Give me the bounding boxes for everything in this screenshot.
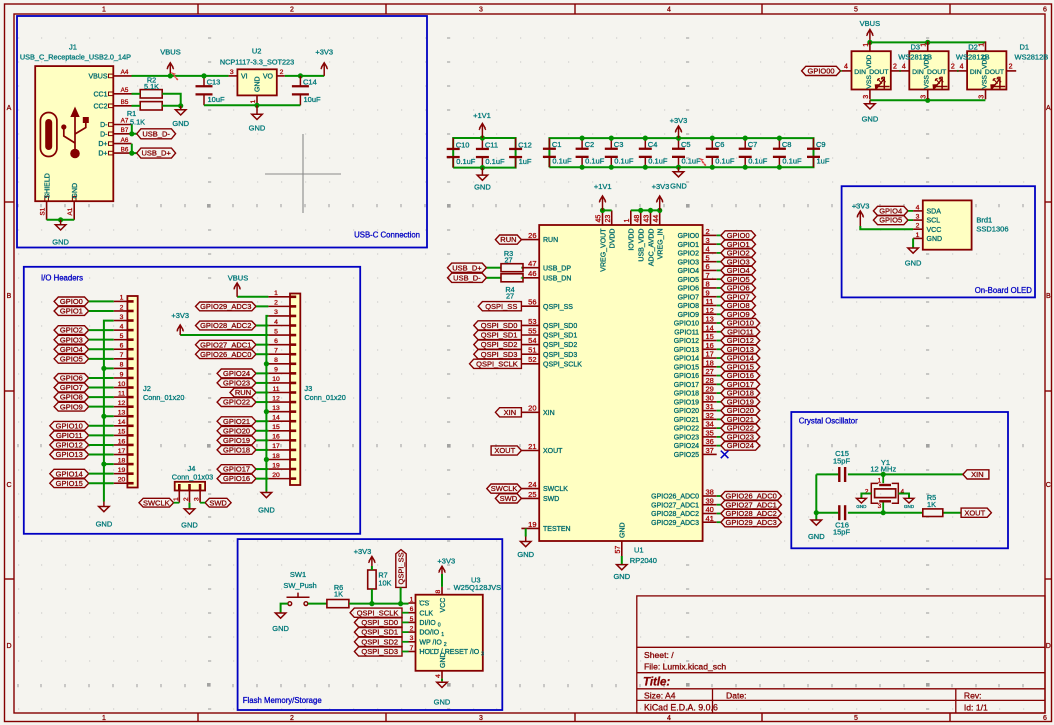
global label GPIO8 J2 (54, 393, 89, 402)
grid origin cross (265, 134, 341, 213)
svg-text:GPIO28_ADC2: GPIO28_ADC2 (726, 509, 777, 518)
svg-text:GPIO27_ADC1: GPIO27_ADC1 (651, 502, 699, 509)
svg-text:GND: GND (434, 697, 451, 706)
pin 23 DVDD U1 (611, 210, 613, 225)
global label GPIO29_ADC3 J3 (196, 302, 257, 311)
global label GPIO26_ADC0 (717, 495, 721, 497)
svg-text:Date:: Date: (726, 690, 747, 700)
svg-text:0.1uF: 0.1uF (715, 157, 735, 166)
svg-text:GPIO21: GPIO21 (223, 417, 250, 426)
svg-text:QSPI_SD2: QSPI_SD2 (543, 342, 577, 349)
svg-text:53: 53 (528, 317, 536, 326)
svg-text:GPIO23: GPIO23 (223, 379, 250, 388)
svg-text:GPIO17: GPIO17 (727, 380, 754, 389)
svg-text:1: 1 (979, 43, 986, 47)
ground (808, 520, 825, 542)
global label GPIO19 J3 (217, 436, 256, 445)
junction (881, 510, 886, 515)
svg-text:1: 1 (921, 43, 928, 47)
svg-text:GPIO1: GPIO1 (60, 307, 83, 316)
pin 2 J3 (268, 305, 290, 307)
svg-text:File: Lumix.kicad_sch: File: Lumix.kicad_sch (644, 662, 726, 672)
svg-text:C10: C10 (456, 141, 470, 150)
svg-text:GND: GND (905, 258, 922, 267)
svg-text:Title:: Title: (643, 677, 670, 689)
global label QSPI_SD0 U3 (354, 618, 402, 627)
svg-text:GPIO19: GPIO19 (223, 436, 250, 445)
svg-text:1: 1 (916, 232, 920, 239)
svg-text:C1: C1 (552, 140, 562, 149)
svg-text:GPIO20: GPIO20 (223, 426, 250, 435)
svg-text:+3V3: +3V3 (437, 557, 455, 566)
pin 12 GPIO9 U1 (703, 313, 717, 315)
svg-text:A6: A6 (121, 137, 129, 144)
connector J4 Conn_01x03 (172, 464, 213, 503)
svg-text:19: 19 (118, 467, 126, 474)
pin 4 DIN D1 (957, 70, 967, 72)
pin 44 VREG_IN U1 (659, 210, 661, 225)
wire GPIO7 J2 (89, 387, 114, 389)
pin 46 USB_DN U1 (521, 277, 539, 279)
global label USB_D+ (137, 148, 176, 158)
pin 1 IOVDD U1 (630, 210, 632, 225)
IC U3 W25Q128JVS (409, 576, 502, 679)
ground (474, 168, 491, 192)
junction (743, 136, 748, 141)
wire CC2 (132, 105, 141, 107)
IC U1 RP2040 (539, 225, 702, 565)
svg-text:SHIELD: SHIELD (44, 173, 51, 198)
global label XIN crystal (963, 470, 989, 479)
svg-text:GND: GND (862, 115, 879, 124)
svg-text:12 MHz: 12 MHz (870, 465, 896, 474)
svg-text:2: 2 (706, 227, 710, 236)
svg-text:4: 4 (667, 7, 671, 14)
svg-text:GPIO19: GPIO19 (727, 397, 754, 406)
ground (613, 564, 630, 581)
wire GPIO3 J2 (89, 339, 114, 341)
power +3V3 cap row (670, 116, 688, 138)
svg-text:CS: CS (419, 601, 429, 608)
global label QSPI_SD1 U3 (354, 628, 402, 637)
pin 3 VSS D1 (985, 90, 987, 100)
svg-text:C: C (6, 482, 11, 489)
wire GPIO8 J2 (89, 396, 114, 398)
svg-text:3: 3 (921, 95, 928, 99)
svg-text:+3V3: +3V3 (652, 182, 670, 191)
svg-text:W25Q128JVS: W25Q128JVS (454, 583, 502, 592)
svg-text:+3V3: +3V3 (354, 547, 372, 556)
svg-text:4: 4 (960, 64, 964, 71)
svg-text:8: 8 (706, 280, 710, 289)
svg-text:GPIO12: GPIO12 (56, 441, 83, 450)
svg-text:A: A (7, 105, 12, 112)
junction (814, 510, 819, 515)
svg-text:51: 51 (528, 346, 536, 355)
svg-text:B6: B6 (121, 146, 129, 153)
svg-text:GPIO9: GPIO9 (60, 402, 83, 411)
svg-text:2: 2 (183, 497, 190, 501)
global label GPIO28_ADC2 (717, 513, 721, 515)
svg-text:0.1uF: 0.1uF (648, 157, 668, 166)
resistor R7 (368, 570, 392, 589)
svg-text:2: 2 (893, 64, 897, 71)
svg-text:0.1uF: 0.1uF (485, 157, 505, 166)
junction (398, 601, 403, 606)
svg-text:2: 2 (410, 626, 414, 633)
svg-text:GPIO18: GPIO18 (223, 446, 250, 455)
svg-text:44: 44 (653, 215, 660, 223)
global label GPIO19 (717, 401, 721, 403)
svg-text:QSPI_SD3: QSPI_SD3 (361, 647, 398, 656)
pin 6 U3 (409, 612, 416, 614)
svg-text:+1V1: +1V1 (473, 111, 491, 120)
svg-text:B: B (7, 293, 12, 300)
svg-text:Conn_01x20: Conn_01x20 (143, 393, 184, 402)
svg-text:QSPI_SD3: QSPI_SD3 (543, 352, 577, 359)
wire GPIO21 J3 (256, 420, 268, 422)
svg-text:WS2812B: WS2812B (898, 52, 932, 61)
svg-text:1K: 1K (334, 590, 343, 599)
svg-text:KiCad E.D.A. 9.0.6: KiCad E.D.A. 9.0.6 (644, 703, 718, 713)
svg-text:57: 57 (615, 546, 622, 554)
svg-text:GND: GND (440, 652, 447, 668)
wire J3 +3V3 (180, 334, 268, 336)
pin 57 GND U1 (621, 541, 623, 556)
global label GPIO5 (717, 278, 721, 280)
wire GPIO17 J3 (256, 468, 268, 470)
junction (580, 165, 585, 170)
global label QSPI_SCLK U1 (470, 359, 522, 368)
svg-text:GPIO4: GPIO4 (879, 207, 902, 216)
ground (517, 537, 534, 560)
pin 11 J3 (268, 392, 290, 394)
pin 14 J2 (114, 425, 128, 427)
junction (676, 136, 681, 141)
global label GPIO12 (717, 340, 721, 342)
svg-text:VSS: VSS (924, 75, 931, 89)
svg-text:5: 5 (854, 715, 858, 722)
svg-text:30: 30 (706, 393, 714, 402)
svg-text:5: 5 (410, 616, 414, 623)
global label QSPI_SD2 U1 (474, 340, 522, 349)
ERC marker (171, 72, 178, 80)
svg-text:18: 18 (272, 453, 280, 460)
svg-text:35: 35 (706, 428, 714, 437)
wire GPIO22 J3 (256, 401, 268, 403)
wire GPIO0 J2 (89, 300, 114, 302)
svg-text:USB_D+: USB_D+ (452, 263, 482, 272)
svg-text:GPIO6: GPIO6 (60, 374, 83, 383)
pin 15 J2 (114, 434, 128, 436)
ground (52, 220, 69, 247)
regulator U2 NCP1117 (220, 47, 294, 106)
svg-text:1: 1 (102, 7, 106, 14)
power +3V3 regulator output (315, 47, 333, 76)
svg-text:Flash Memory/Storage: Flash Memory/Storage (243, 696, 322, 705)
svg-text:14: 14 (272, 415, 280, 422)
global label GPIO3 (717, 261, 721, 263)
junction (101, 366, 106, 371)
svg-text:GPIO13: GPIO13 (674, 347, 699, 354)
svg-text:+1V1: +1V1 (594, 182, 612, 191)
svg-text:GPIO3: GPIO3 (678, 259, 700, 266)
global label GPIO10 (717, 322, 721, 324)
pin 4 SDA Brd1 (913, 210, 923, 212)
+3V3 decoupling rail (549, 138, 813, 167)
global label QSPI_SD3 U1 (474, 350, 522, 359)
pin 3 J3 (268, 315, 290, 317)
svg-text:Brd1: Brd1 (976, 215, 992, 224)
svg-text:19: 19 (528, 520, 536, 529)
svg-text:3: 3 (120, 314, 124, 321)
pin 6 J2 (114, 348, 128, 350)
svg-text:48: 48 (634, 215, 641, 223)
svg-text:7: 7 (274, 348, 278, 355)
+1V1 decoupling rail (453, 138, 515, 168)
pin 55 QSPI_SD1 U1 (521, 334, 539, 336)
svg-text:QSPI_SCLK: QSPI_SCLK (476, 359, 518, 368)
svg-text:D-: D- (100, 122, 108, 129)
svg-text:GPIO9: GPIO9 (727, 310, 750, 319)
global label GPIO23 (717, 436, 721, 438)
power +1V1 cap row (473, 111, 491, 138)
global label SWD J4 (205, 498, 231, 507)
pin 18 J2 (114, 463, 128, 465)
pin 1 J2 (114, 300, 128, 302)
svg-text:GPIO11: GPIO11 (674, 329, 699, 336)
wire +3V3 to U1 (631, 209, 660, 211)
global label GPIO18 (717, 392, 721, 394)
wire GPIO23 J3 (256, 382, 268, 384)
svg-text:SWD: SWD (500, 494, 518, 503)
svg-text:C14: C14 (303, 77, 317, 86)
svg-text:3: 3 (863, 95, 870, 99)
pin 2 case Y1 (861, 494, 871, 499)
resistor R6 (327, 583, 349, 608)
svg-text:46: 46 (528, 269, 536, 278)
svg-text:GPIO22: GPIO22 (223, 398, 250, 407)
svg-text:GPIO18: GPIO18 (674, 391, 699, 398)
svg-text:GPIO2: GPIO2 (60, 326, 83, 335)
svg-text:S1: S1 (40, 207, 47, 215)
svg-text:GPIO20: GPIO20 (727, 406, 754, 415)
svg-text:1uF: 1uF (519, 157, 532, 166)
svg-text:0.1uF: 0.1uF (748, 157, 768, 166)
wire GPIO12 J2 (89, 444, 114, 446)
svg-text:GPIO1: GPIO1 (727, 240, 750, 249)
svg-text:20: 20 (272, 472, 280, 479)
svg-text:C6: C6 (715, 140, 725, 149)
ground (258, 492, 275, 515)
global label GPIO14 (717, 357, 721, 359)
global label GPIO16 (717, 375, 721, 377)
pin 2 J4 (189, 491, 191, 503)
svg-text:USB_DN: USB_DN (543, 275, 571, 282)
pin 17 J3 (268, 449, 290, 451)
svg-text:10: 10 (272, 376, 280, 383)
pin 45 VREG_VOUT U1 (602, 210, 604, 225)
svg-text:GPIO1: GPIO1 (678, 242, 700, 249)
ground (181, 508, 198, 529)
svg-text:GPIO17: GPIO17 (223, 465, 250, 474)
wire R7 bottom (371, 589, 373, 604)
global label USB_D- (137, 129, 176, 139)
global label GPIO18 J3 (217, 446, 256, 455)
svg-text:GPIO9: GPIO9 (678, 312, 700, 319)
pin 3 SCL Brd1 (913, 219, 923, 221)
svg-text:GPIO18: GPIO18 (727, 389, 754, 398)
note box USB-C Connection (17, 16, 427, 248)
pin 3 U3 (409, 641, 416, 643)
junction (643, 136, 648, 141)
svg-text:GPIO5: GPIO5 (727, 275, 750, 284)
svg-text:47: 47 (528, 259, 536, 268)
svg-text:11: 11 (118, 390, 125, 397)
svg-text:Sheet: /: Sheet: / (644, 650, 674, 660)
svg-text:3: 3 (706, 236, 710, 245)
svg-text:XIN: XIN (971, 470, 984, 479)
svg-text:GND: GND (272, 624, 289, 633)
wire GPIO29_ADC3 J3 (256, 305, 268, 307)
pin 26 RUN U1 (521, 239, 539, 241)
svg-text:USB_C_Receptacle_USB2.0_14P: USB_C_Receptacle_USB2.0_14P (20, 53, 131, 62)
svg-text:2: 2 (290, 7, 294, 14)
pin 2 DOUT D1 (1006, 70, 1016, 72)
wire USB_DN (486, 277, 501, 279)
svg-text:7: 7 (410, 645, 414, 652)
wire R7 top (371, 566, 373, 570)
svg-text:QSPI_SCLK: QSPI_SCLK (543, 361, 582, 368)
svg-text:GPIO10: GPIO10 (56, 421, 83, 430)
pin 7 J3 (268, 353, 290, 355)
svg-text:GPIO6: GPIO6 (727, 284, 750, 293)
global label GPIO13 J2 (50, 450, 89, 459)
LED D3 WS2812B (842, 41, 901, 99)
svg-text:9: 9 (120, 371, 124, 378)
svg-text:RUN: RUN (543, 237, 558, 244)
global label GPIO4 OLED (873, 206, 908, 215)
svg-text:13: 13 (706, 315, 714, 324)
wire D- to label (132, 125, 137, 134)
capacitor C2 (576, 138, 605, 167)
pin 16 GPIO13 U1 (703, 348, 717, 350)
pin 5 U3 (409, 621, 416, 623)
svg-text:J2: J2 (143, 384, 151, 393)
capacitor C1 (543, 138, 572, 167)
global label GPIO24 (717, 445, 721, 447)
wire GPIO16 J3 (256, 478, 268, 480)
svg-text:6: 6 (274, 338, 278, 345)
svg-text:GPIO14: GPIO14 (674, 356, 699, 363)
svg-text:GND: GND (96, 520, 113, 529)
svg-text:IOVDD: IOVDD (629, 229, 636, 251)
svg-text:Conn_01x03: Conn_01x03 (172, 472, 213, 481)
svg-text:8: 8 (274, 357, 278, 364)
svg-text:GPIO22: GPIO22 (674, 426, 699, 433)
global label GPIO6 J2 (54, 374, 89, 383)
pin 8 VCC U3 (441, 587, 443, 595)
svg-text:31: 31 (706, 402, 714, 411)
svg-text:7: 7 (120, 352, 124, 359)
svg-text:GPIO24: GPIO24 (727, 441, 754, 450)
svg-text:GPIO21: GPIO21 (674, 417, 699, 424)
svg-text:VDD: VDD (866, 55, 873, 69)
ground (249, 105, 266, 132)
wire SW1 to R6 (308, 603, 327, 605)
svg-text:GPIO3: GPIO3 (727, 257, 750, 266)
pin 1 VDD D1 (985, 41, 987, 51)
svg-text:GPIO11: GPIO11 (56, 431, 83, 440)
pin 25 SWD U1 (521, 497, 539, 499)
global label GPIO9 (717, 313, 721, 315)
wire J2 pin 8 ground (104, 367, 114, 369)
pin 38 GPIO26_ADC0 U1 (703, 495, 717, 497)
svg-text:GPIO0: GPIO0 (678, 233, 700, 240)
svg-text:0.1uF: 0.1uF (782, 157, 802, 166)
svg-text:6: 6 (410, 606, 414, 613)
svg-text:WS2812B: WS2812B (1015, 52, 1049, 61)
power +3V3 flash R7 (354, 547, 376, 566)
svg-text:XIN: XIN (504, 408, 517, 417)
svg-text:GPIO3: GPIO3 (60, 335, 83, 344)
svg-text:GPIO6: GPIO6 (678, 286, 700, 293)
svg-text:C2: C2 (585, 140, 595, 149)
pin 56 QSPI_SS U1 (521, 305, 539, 307)
svg-text:C4: C4 (648, 140, 658, 149)
svg-text:2: 2 (916, 223, 920, 230)
svg-text:GPIO14: GPIO14 (727, 354, 754, 363)
svg-text:VO: VO (263, 74, 274, 81)
pin 8 GPIO6 U1 (703, 287, 717, 289)
svg-text:GPIO7: GPIO7 (678, 294, 700, 301)
global label GPIO15 J2 (50, 479, 89, 488)
junction (298, 73, 303, 78)
svg-text:25: 25 (528, 490, 536, 499)
wire U1 GND (621, 556, 623, 564)
ground (172, 106, 189, 128)
svg-text:55: 55 (528, 326, 536, 335)
global label GPIO11 (717, 331, 721, 333)
svg-text:GPIO16: GPIO16 (223, 474, 250, 483)
svg-text:15: 15 (118, 429, 126, 436)
svg-text:15pF: 15pF (833, 528, 851, 537)
svg-text:4: 4 (844, 64, 848, 71)
connector J2 Conn_01x20 (114, 295, 185, 488)
capacitor C12 (509, 138, 532, 168)
pin 16 J3 (268, 439, 290, 441)
pin 41 GPIO29_ADC3 U1 (703, 521, 717, 523)
wire OLED GND (912, 238, 914, 247)
svg-text:J3: J3 (304, 384, 312, 393)
svg-text:D3: D3 (911, 43, 921, 52)
wire J3 pin 13 ground (266, 411, 268, 413)
pin 5 J2 (114, 339, 128, 341)
svg-text:GPIO13: GPIO13 (56, 450, 83, 459)
note box Crystal Oscillator (791, 412, 1008, 548)
svg-text:CC2: CC2 (93, 103, 107, 110)
svg-text:A1: A1 (67, 207, 74, 215)
wire crystal ground bus (815, 474, 817, 519)
wire GPIO6 J2 (89, 377, 114, 379)
capacitor C14 (292, 76, 321, 105)
svg-text:GPIO17: GPIO17 (674, 382, 699, 389)
svg-text:6: 6 (120, 343, 124, 350)
pin S1 SHIELD (46, 201, 48, 220)
svg-text:4: 4 (120, 323, 124, 330)
svg-text:VBUS: VBUS (860, 19, 880, 28)
svg-text:GPIO26_ADC0: GPIO26_ADC0 (651, 494, 699, 501)
